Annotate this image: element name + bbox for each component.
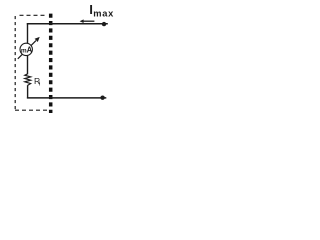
dashed box bottom edge — [15, 109, 48, 111]
dashed box left edge — [14, 16, 16, 110]
wire bottom horizontal — [27, 97, 106, 99]
dashed box top edge — [20, 14, 48, 16]
wire meter to resistor — [27, 55, 29, 74]
resistor Ri zigzag — [25, 74, 31, 86]
terminal dot bottom — [100, 96, 104, 100]
dashed box right edge (thick) — [49, 14, 53, 113]
svg-text:mA: mA — [21, 45, 33, 54]
adjust arrow line through meter — [18, 41, 36, 59]
ammeter circle U1 — [20, 43, 32, 55]
adjust arrow head — [35, 37, 40, 42]
wire vertical to meter — [27, 23, 29, 43]
svg-text:max: max — [93, 8, 114, 18]
wire resistor down — [27, 85, 29, 98]
svg-text:i: i — [39, 81, 40, 88]
wire top horizontal — [27, 23, 108, 25]
current direction arrow — [83, 20, 95, 22]
terminal dot top — [102, 22, 106, 26]
